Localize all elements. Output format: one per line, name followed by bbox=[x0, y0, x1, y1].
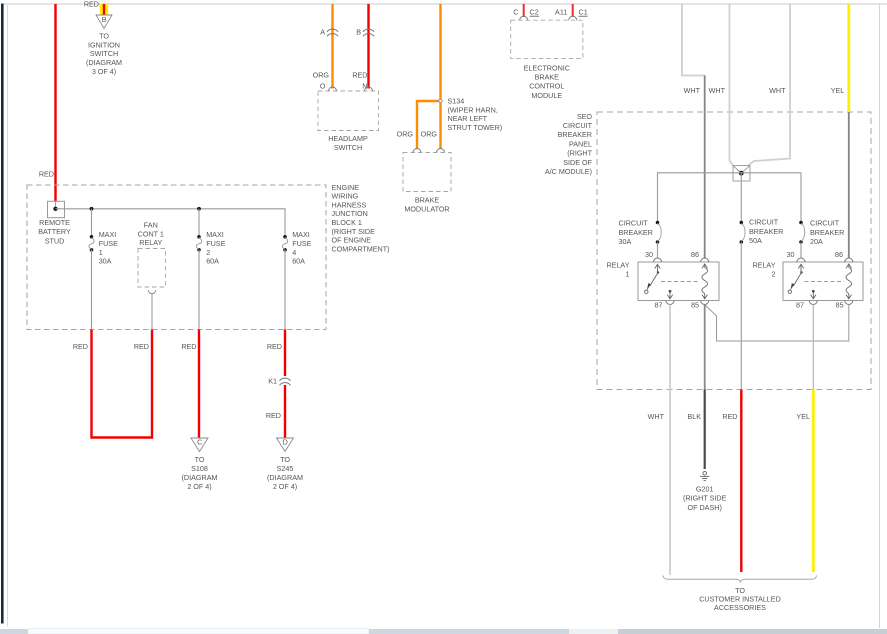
wire RED U-loop fuse1 to fan relay bbox=[92, 330, 153, 438]
label ENGINE WIRING HARNESS JUNCTION BLOCK 1 bbox=[332, 183, 390, 254]
fuse MAXI FUSE 2 60A bbox=[196, 235, 201, 252]
svg-text:(DIAGRAM: (DIAGRAM bbox=[267, 473, 303, 482]
svg-text:C: C bbox=[197, 438, 202, 447]
svg-text:A: A bbox=[320, 27, 325, 36]
label connector C2 underlined bbox=[530, 8, 540, 17]
label RELAY 2 bbox=[752, 261, 775, 279]
svg-text:RED: RED bbox=[134, 342, 149, 351]
svg-text:2: 2 bbox=[206, 248, 210, 257]
svg-text:K1: K1 bbox=[268, 376, 277, 385]
svg-text:REMOTE: REMOTE bbox=[39, 218, 70, 227]
svg-text:S134: S134 bbox=[448, 97, 465, 106]
svg-text:WIRING: WIRING bbox=[332, 192, 359, 201]
module BRAKE MODULATOR dashed box bbox=[403, 153, 451, 192]
label TO IGNITION SWITCH (DIAGRAM 3 OF 4) bbox=[86, 32, 122, 76]
svg-text:CIRCUIT: CIRCUIT bbox=[749, 218, 779, 227]
relay2 switch arm bbox=[788, 271, 803, 293]
wire fuse 4 to box edge bbox=[284, 250, 286, 330]
label CIRCUIT BREAKER 30A bbox=[619, 219, 653, 247]
relay1 pin85 arrow bbox=[702, 294, 707, 299]
svg-text:YEL: YEL bbox=[796, 412, 810, 421]
svg-text:BLK: BLK bbox=[687, 412, 701, 421]
svg-text:C: C bbox=[513, 8, 518, 17]
wire ORG to headlamp switch pin O bbox=[331, 4, 333, 89]
svg-text:TO: TO bbox=[99, 32, 109, 41]
label RELAY 1 bbox=[606, 261, 629, 279]
svg-text:FUSE: FUSE bbox=[99, 239, 118, 248]
wire ORG below S134 to brake modulator bbox=[439, 103, 441, 149]
label CIRCUIT BREAKER 20A bbox=[810, 219, 844, 247]
bottom scrollbar light segment bbox=[569, 629, 618, 634]
svg-text:CIRCUIT: CIRCUIT bbox=[810, 219, 840, 228]
pin bump relay2 85 bbox=[845, 301, 853, 305]
wire WHT 1 from top bbox=[682, 4, 705, 76]
svg-text:HEADLAMP: HEADLAMP bbox=[328, 134, 368, 143]
wire relay1 85 link to relay2 85 bbox=[705, 305, 849, 342]
node splice junction dot bbox=[739, 171, 744, 176]
label TO S245 (DIAGRAM 2 OF 4) bbox=[267, 455, 303, 491]
svg-text:SIDE OF: SIDE OF bbox=[563, 158, 592, 167]
wire gray drop to relay 2 pin 86 bbox=[848, 112, 850, 259]
svg-text:2 OF 4): 2 OF 4) bbox=[273, 482, 297, 491]
svg-text:85: 85 bbox=[691, 300, 699, 309]
fuse MAXI FUSE 4 60A bbox=[282, 235, 287, 252]
svg-text:CONT 1: CONT 1 bbox=[138, 229, 164, 238]
svg-text:BREAKER: BREAKER bbox=[619, 228, 653, 237]
bottom scrollbar track left cap bbox=[0, 629, 28, 634]
pin bump relay1 87 bbox=[666, 301, 674, 305]
svg-text:30: 30 bbox=[787, 250, 795, 259]
pin bump EBCM C bbox=[520, 16, 528, 20]
node junction dot at fuse 2 tap bbox=[197, 207, 201, 211]
svg-text:RED: RED bbox=[39, 170, 54, 179]
wire RED to headlamp switch pin N bbox=[367, 4, 369, 89]
svg-text:60A: 60A bbox=[292, 257, 305, 266]
svg-text:RED: RED bbox=[181, 342, 196, 351]
svg-text:S245: S245 bbox=[277, 464, 294, 473]
label MAXI FUSE 2 60A bbox=[206, 230, 225, 265]
wire fuse 1 to box edge bbox=[91, 250, 93, 330]
svg-text:87: 87 bbox=[655, 300, 663, 309]
junction block dashed box bbox=[27, 185, 326, 330]
svg-text:1: 1 bbox=[99, 248, 103, 257]
svg-text:G201: G201 bbox=[696, 485, 714, 494]
relay1 mechanical dashed link bbox=[661, 281, 700, 283]
bottom scrollbar track mid bbox=[369, 629, 569, 634]
svg-text:2: 2 bbox=[772, 270, 776, 279]
wire YEL relay2 87 below panel bbox=[812, 390, 815, 573]
svg-text:(RIGHT SIDE: (RIGHT SIDE bbox=[683, 494, 727, 503]
svg-text:FAN: FAN bbox=[144, 221, 158, 230]
relay2 pin86 arrow bbox=[846, 264, 851, 268]
svg-text:OF ENGINE: OF ENGINE bbox=[332, 236, 372, 245]
label TO CUSTOMER INSTALLED ACCESSORIES bbox=[699, 586, 781, 612]
svg-text:BRAKE: BRAKE bbox=[415, 196, 440, 205]
wire fuse 2 to box edge bbox=[198, 250, 200, 330]
panel SEO circuit breaker panel dashed box bbox=[597, 112, 871, 390]
module ELECTRONIC BRAKE CONTROL MODULE dashed box bbox=[511, 20, 583, 58]
diagram left border bbox=[7, 4, 9, 627]
node junction dot at fuse 1 tap bbox=[90, 207, 94, 211]
svg-text:CIRCUIT: CIRCUIT bbox=[619, 219, 649, 228]
svg-text:SEO: SEO bbox=[577, 112, 593, 121]
svg-text:(DIAGRAM: (DIAGRAM bbox=[182, 473, 218, 482]
pin bump relay2 30 bbox=[797, 258, 805, 262]
svg-text:30A: 30A bbox=[99, 257, 112, 266]
svg-text:MODULATOR: MODULATOR bbox=[404, 205, 449, 214]
relay2 mechanical dashed link bbox=[805, 281, 845, 283]
svg-text:A11: A11 bbox=[555, 8, 567, 17]
svg-text:BREAKER: BREAKER bbox=[558, 130, 592, 139]
svg-text:ORG: ORG bbox=[313, 71, 330, 80]
svg-text:MAXI: MAXI bbox=[206, 230, 224, 239]
label CIRCUIT BREAKER 50A bbox=[749, 218, 783, 246]
svg-text:TO: TO bbox=[280, 455, 290, 464]
svg-text:3 OF 4): 3 OF 4) bbox=[92, 67, 116, 76]
svg-text:STUD: STUD bbox=[45, 236, 65, 245]
connector arcs on wire B bbox=[363, 29, 374, 36]
svg-text:B: B bbox=[356, 27, 361, 36]
ground G201 symbol bbox=[700, 472, 709, 481]
svg-text:86: 86 bbox=[691, 250, 699, 259]
svg-text:MAXI: MAXI bbox=[99, 230, 117, 239]
svg-text:FUSE: FUSE bbox=[292, 239, 311, 248]
diagram top border bbox=[4, 3, 887, 5]
pin bump relay1 86 bbox=[701, 258, 709, 262]
pin bump relay2 87 bbox=[809, 301, 817, 305]
svg-text:BREAKER: BREAKER bbox=[749, 227, 783, 236]
svg-text:RED: RED bbox=[267, 342, 282, 351]
pin bump brake modulator left bbox=[413, 149, 421, 153]
svg-text:SWITCH: SWITCH bbox=[90, 49, 118, 58]
svg-text:ENGINE: ENGINE bbox=[332, 183, 360, 192]
svg-text:OF DASH): OF DASH) bbox=[688, 503, 722, 512]
wire WHT 3 from top bbox=[748, 4, 790, 166]
wire bus across breakers bbox=[657, 173, 801, 223]
off-page connector triangle D bbox=[277, 438, 294, 452]
wire RED with yellow highlight to ignition switch bbox=[100, 4, 108, 15]
svg-text:ORG: ORG bbox=[397, 130, 414, 139]
wire bus drop to fuse 2 bbox=[198, 209, 200, 236]
svg-text:S108: S108 bbox=[191, 464, 208, 473]
relay1 coil bbox=[702, 268, 708, 294]
wire relay2 87 down gray segment bbox=[812, 305, 814, 390]
label MAXI FUSE 1 30A bbox=[99, 230, 118, 265]
svg-text:NEAR LEFT: NEAR LEFT bbox=[448, 114, 488, 123]
wire RED fuse4 lower segment to S245 bbox=[284, 385, 286, 438]
relay1 pin87 contact and arrow bbox=[667, 290, 672, 299]
relay2 coil bbox=[846, 268, 852, 294]
svg-text:2 OF 4): 2 OF 4) bbox=[187, 482, 211, 491]
svg-text:MODULE: MODULE bbox=[531, 91, 562, 100]
connector arcs on wire A bbox=[327, 29, 338, 36]
svg-text:(RIGHT SIDE: (RIGHT SIDE bbox=[332, 227, 376, 236]
switch HEADLAMP SWITCH dashed box bbox=[318, 91, 379, 131]
relay1 pin30 arrow bbox=[655, 264, 660, 272]
svg-text:RED: RED bbox=[266, 411, 281, 420]
svg-text:ACCESSORIES: ACCESSORIES bbox=[714, 603, 766, 612]
wire relay1 85 down gray segment bbox=[704, 305, 706, 390]
breaker CIRCUIT BREAKER 20A bbox=[799, 221, 805, 244]
svg-text:(RIGHT: (RIGHT bbox=[567, 149, 592, 158]
svg-text:STRUT TOWER): STRUT TOWER) bbox=[448, 123, 503, 132]
connector K1 arcs bbox=[280, 378, 291, 385]
relay RELAY 1 box bbox=[638, 262, 719, 301]
breaker CIRCUIT BREAKER 30A bbox=[656, 221, 662, 244]
wire RED EBCM pin C stub bbox=[523, 4, 525, 17]
relay RELAY 2 box bbox=[783, 262, 863, 301]
wire fan relay to box edge bbox=[151, 294, 153, 330]
wire RED fuse2 to S108 bbox=[198, 330, 200, 438]
wire bus from stud to fuses bbox=[56, 209, 286, 236]
wire YEL from top bbox=[847, 4, 850, 112]
diagram right border bbox=[879, 4, 881, 628]
pin bump headlamp pin N bbox=[365, 87, 373, 91]
label S134 (WIPER HARN, NEAR LEFT STRUT TOWER) bbox=[448, 97, 503, 132]
svg-text:FUSE: FUSE bbox=[206, 239, 225, 248]
pin bump relay1 85 bbox=[701, 301, 709, 305]
svg-text:85: 85 bbox=[836, 300, 844, 309]
fuse MAXI FUSE 1 30A bbox=[89, 235, 94, 252]
svg-text:WHT: WHT bbox=[709, 86, 726, 95]
svg-text:CONTROL: CONTROL bbox=[529, 82, 564, 91]
label MAXI FUSE 4 60A bbox=[292, 230, 311, 265]
svg-text:HARNESS: HARNESS bbox=[332, 200, 367, 209]
svg-text:(WIPER HARN,: (WIPER HARN, bbox=[448, 105, 498, 114]
label TO S108 (DIAGRAM 2 OF 4) bbox=[182, 455, 218, 491]
svg-text:87: 87 bbox=[796, 300, 804, 309]
relay1 pin86 arrow bbox=[702, 264, 707, 268]
svg-text:4: 4 bbox=[292, 248, 296, 257]
bottom scrollbar thumb bbox=[28, 629, 369, 634]
label REMOTE BATTERY STUD bbox=[38, 218, 71, 245]
wire breaker 30A to relay 1 pin 30 bbox=[657, 242, 659, 259]
wire bus drop to fuse 1 bbox=[91, 209, 93, 236]
pin bump EBCM A11 bbox=[569, 16, 577, 20]
wire RED EBCM pin A11 stub bbox=[572, 4, 574, 17]
off-page connector triangle C bbox=[191, 438, 208, 452]
svg-text:RED: RED bbox=[84, 0, 99, 9]
svg-text:WHT: WHT bbox=[648, 412, 665, 421]
svg-text:WHT: WHT bbox=[684, 86, 701, 95]
remote battery stud box bbox=[48, 201, 65, 217]
pin bump fan relay output bbox=[148, 290, 155, 293]
brace to customer installed accessories bbox=[663, 576, 817, 582]
svg-text:BLOCK 1: BLOCK 1 bbox=[332, 218, 362, 227]
wire relay1 87 down (WHT) bbox=[669, 305, 671, 576]
svg-text:JUNCTION: JUNCTION bbox=[332, 209, 368, 218]
svg-text:1: 1 bbox=[626, 270, 630, 279]
pin bump brake modulator right bbox=[437, 149, 445, 153]
label G201 (RIGHT SIDE OF DASH) bbox=[683, 485, 727, 512]
svg-text:TO: TO bbox=[195, 455, 205, 464]
relay2 pin87 contact and arrow bbox=[811, 290, 816, 299]
svg-text:PANEL: PANEL bbox=[569, 139, 592, 148]
splice S134 open circle bbox=[439, 99, 442, 102]
relay2 pin85 arrow bbox=[846, 294, 851, 299]
wire RED battery feed to remote battery stud bbox=[54, 4, 56, 202]
wire dark gray drop to relay 1 pin 86 bbox=[704, 76, 706, 259]
svg-text:30A: 30A bbox=[619, 237, 632, 246]
svg-text:WHT: WHT bbox=[769, 86, 786, 95]
wire WHT 2 from top bbox=[730, 4, 734, 166]
svg-text:ELECTRONIC: ELECTRONIC bbox=[524, 63, 570, 72]
svg-text:86: 86 bbox=[835, 250, 843, 259]
window left dark border bbox=[1, 4, 4, 624]
svg-text:RED: RED bbox=[722, 412, 737, 421]
pin bump relay2 86 bbox=[845, 258, 853, 262]
relay2 pin30 arrow bbox=[798, 264, 803, 272]
svg-text:20A: 20A bbox=[810, 237, 823, 246]
label ELECTRONIC BRAKE CONTROL MODULE bbox=[524, 63, 570, 100]
wire BLK to ground bbox=[704, 390, 706, 470]
relay1 switch arm bbox=[645, 271, 660, 293]
svg-text:RED: RED bbox=[352, 71, 367, 80]
wire ORG branch from S134 to brake modulator bbox=[417, 101, 439, 149]
svg-text:MAXI: MAXI bbox=[292, 230, 310, 239]
svg-text:ORG: ORG bbox=[421, 130, 438, 139]
svg-text:C2: C2 bbox=[530, 8, 539, 17]
label HEADLAMP SWITCH bbox=[328, 134, 368, 152]
svg-text:C1: C1 bbox=[579, 8, 588, 17]
svg-text:SWITCH: SWITCH bbox=[334, 143, 362, 152]
svg-text:CIRCUIT: CIRCUIT bbox=[563, 121, 593, 130]
svg-text:IGNITION: IGNITION bbox=[88, 40, 120, 49]
svg-text:B: B bbox=[102, 15, 107, 24]
svg-text:BATTERY: BATTERY bbox=[38, 227, 71, 236]
wire splice dot down to breaker 50A bbox=[740, 173, 742, 222]
pin bump relay1 30 bbox=[654, 258, 662, 262]
wire RED breaker 50A output below panel bbox=[740, 390, 742, 573]
wire ORG main to splice S134 bbox=[439, 4, 441, 99]
label SEO CIRCUIT BREAKER PANEL (RIGHT SIDE OF A/C MODULE) bbox=[545, 112, 593, 176]
relay FAN CONT 1 RELAY dashed box bbox=[138, 249, 166, 288]
svg-text:BREAKER: BREAKER bbox=[810, 228, 844, 237]
splice funnel box bbox=[733, 166, 750, 182]
breaker CIRCUIT BREAKER 50A bbox=[740, 221, 746, 244]
label BRAKE MODULATOR bbox=[404, 196, 449, 214]
bottom scrollbar track right bbox=[618, 629, 887, 634]
svg-text:60A: 60A bbox=[206, 257, 219, 266]
svg-text:O: O bbox=[320, 81, 326, 90]
label FAN CONT 1 RELAY bbox=[138, 221, 164, 248]
svg-text:RELAY: RELAY bbox=[606, 261, 629, 270]
svg-text:A/C MODULE): A/C MODULE) bbox=[545, 167, 592, 176]
svg-text:RED: RED bbox=[73, 342, 88, 351]
svg-text:YEL: YEL bbox=[831, 86, 845, 95]
label connector C1 underlined bbox=[579, 8, 588, 17]
svg-text:30: 30 bbox=[645, 250, 653, 259]
wire RED fuse4 upper segment bbox=[284, 330, 286, 377]
pin bump headlamp pin O bbox=[329, 87, 337, 91]
svg-text:BRAKE: BRAKE bbox=[535, 73, 560, 82]
svg-text:D: D bbox=[283, 438, 288, 447]
svg-text:RELAY: RELAY bbox=[752, 261, 775, 270]
svg-text:RELAY: RELAY bbox=[139, 238, 162, 247]
svg-text:(DIAGRAM: (DIAGRAM bbox=[86, 58, 122, 67]
svg-text:50A: 50A bbox=[749, 236, 762, 245]
wire breaker 20A to relay 2 pin 30 bbox=[800, 242, 802, 259]
svg-text:COMPARTMENT): COMPARTMENT) bbox=[332, 244, 390, 253]
off-page connector triangle B bbox=[96, 15, 112, 29]
wire breaker 50A output down between relays bbox=[740, 242, 742, 390]
